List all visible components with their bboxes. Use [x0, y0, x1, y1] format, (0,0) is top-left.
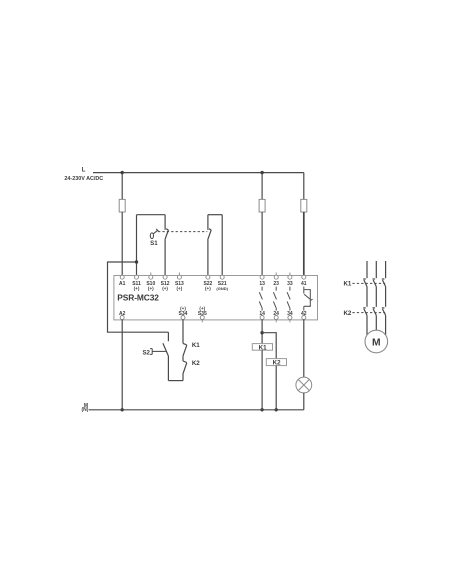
svg-text:A2: A2	[119, 311, 126, 317]
relay contact 23-24	[273, 287, 276, 311]
node junction L/A1	[121, 171, 124, 174]
terminal A1	[119, 275, 126, 287]
wire L to fuse F1	[121, 173, 123, 200]
wire S22 lower	[207, 240, 209, 275]
fuse F1	[119, 199, 125, 212]
terminal 23	[273, 273, 279, 288]
node junction 14/K2-branch	[260, 331, 263, 334]
terminal S10	[146, 273, 155, 292]
svg-text:42: 42	[301, 311, 307, 317]
node junction A2/N	[121, 408, 124, 411]
svg-text:PSR-MC32: PSR-MC32	[117, 292, 159, 302]
wire loop2 top S22-S21	[208, 214, 222, 216]
node junction L/13	[260, 171, 263, 174]
wire S21 riser	[221, 215, 223, 276]
wire N rail	[89, 409, 304, 411]
switch S1 actuator	[150, 229, 158, 239]
terminal S12	[161, 275, 170, 291]
switch S1 mechanical link (dashed)	[158, 231, 207, 233]
terminal 33	[287, 273, 293, 288]
svg-text:(+): (+)	[134, 286, 140, 291]
wire L corner to fuse F3	[303, 173, 305, 200]
motor phase line 3	[385, 261, 387, 278]
wire 42 to lamp	[303, 320, 305, 378]
svg-text:S34: S34	[179, 311, 188, 317]
wire F1 to A1	[121, 212, 123, 275]
svg-text:24: 24	[273, 311, 279, 317]
terminal A2	[119, 311, 126, 320]
svg-text:34: 34	[287, 311, 293, 317]
terminal 14	[259, 311, 265, 320]
svg-text:K2: K2	[343, 310, 351, 317]
terminal S35	[198, 306, 207, 323]
wire branch to K2 coil	[262, 333, 276, 359]
terminal 24	[273, 311, 279, 322]
node junction S11/feed	[135, 260, 138, 263]
coil K1	[252, 344, 272, 351]
svg-text:K1: K1	[343, 281, 351, 288]
terminal 13	[259, 275, 265, 287]
svg-text:S2: S2	[142, 349, 150, 356]
wire S12 lower	[164, 240, 166, 275]
svg-text:(N): (N)	[82, 407, 89, 413]
wire S11 riser	[136, 215, 138, 276]
svg-text:33: 33	[287, 281, 293, 287]
contactor K2 main contacts	[363, 308, 385, 335]
svg-text:K2: K2	[192, 360, 200, 367]
terminal S13	[175, 273, 184, 292]
wire 14 to K1 coil	[261, 320, 263, 344]
dashed link K1	[352, 282, 385, 284]
svg-text:14: 14	[259, 311, 265, 317]
svg-text:S1: S1	[150, 240, 158, 247]
fuse F2	[259, 199, 265, 212]
terminal 41	[301, 275, 307, 287]
contact K2 (feedback)	[183, 361, 187, 381]
svg-text:A1: A1	[119, 281, 126, 287]
node N label	[82, 403, 89, 413]
wire U bottom	[168, 380, 183, 382]
wire L rail	[93, 172, 304, 174]
svg-text:L: L	[82, 168, 86, 174]
switch S2 blade	[163, 343, 169, 356]
wire S22 upper stub	[207, 215, 209, 230]
svg-text:S35: S35	[198, 311, 207, 317]
wire from S11 junction to S2 (left feed)	[108, 262, 169, 332]
terminal 34	[287, 311, 293, 322]
svg-text:K1: K1	[259, 345, 267, 352]
terminal S11	[132, 275, 141, 291]
fuse F3	[301, 199, 307, 212]
svg-text:41: 41	[301, 281, 307, 287]
coil K2	[266, 359, 286, 366]
switch S1 contact 1 blade	[165, 230, 169, 240]
contactor K1 main contacts	[363, 279, 385, 307]
wire A2 to N rail	[121, 320, 123, 410]
terminal 42	[301, 311, 307, 320]
terminal S22	[203, 275, 212, 291]
wire F2 to terminal 13	[261, 212, 263, 275]
node L	[64, 168, 103, 182]
wire K2 coil to N rail	[275, 366, 277, 410]
node junction K2/N	[275, 408, 278, 411]
svg-text:M: M	[372, 338, 381, 349]
relay contact 13-14	[259, 287, 262, 311]
terminal S21	[216, 275, 228, 291]
wire S34 to K1 contact	[182, 320, 184, 344]
relay contact 41-42 (NC)	[304, 287, 313, 311]
switch S2 upper stub	[167, 332, 169, 341]
svg-text:24-230V AC/DC: 24-230V AC/DC	[64, 176, 103, 182]
svg-text:13: 13	[259, 281, 265, 287]
relay box PSR-MC32	[114, 276, 318, 320]
svg-text:(GND): (GND)	[216, 286, 228, 291]
dashed link K2	[352, 312, 385, 314]
svg-text:23: 23	[273, 281, 279, 287]
wire L to fuse F2	[261, 173, 263, 200]
motor phase line 1	[366, 261, 368, 278]
svg-text:(+): (+)	[205, 286, 211, 291]
svg-text:K1: K1	[192, 342, 200, 349]
lamp H1	[296, 377, 312, 393]
wire lamp to N rail	[303, 393, 305, 410]
svg-text:(+): (+)	[148, 286, 154, 291]
node junction K1/N	[260, 408, 263, 411]
terminal S34	[179, 306, 188, 320]
switch S2 actuator	[150, 349, 166, 355]
contact K1 (feedback)	[183, 343, 187, 361]
svg-text:(+): (+)	[177, 286, 183, 291]
relay contact 33-34	[287, 287, 290, 311]
wire K1 coil to N rail	[261, 350, 263, 410]
svg-text:K2: K2	[273, 360, 281, 367]
motor M	[365, 330, 388, 353]
switch S1 contact 2 blade	[208, 230, 212, 240]
wire F3 to terminal 41	[303, 212, 305, 275]
svg-text:(+): (+)	[162, 286, 168, 291]
wire loop1 top S11-S12	[137, 214, 166, 216]
wire S12 upper stub	[164, 215, 166, 230]
motor phase line 2	[375, 261, 377, 278]
wire S2 lower	[167, 356, 169, 381]
